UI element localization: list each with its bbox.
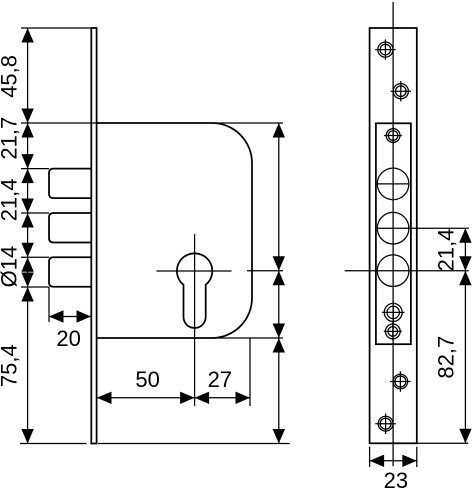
- arrows right view: [459, 228, 471, 243]
- screw hole 4: [382, 301, 405, 324]
- svg-text:45,8: 45,8: [0, 55, 21, 98]
- svg-text:23: 23: [384, 468, 408, 488]
- faceplate side view: [91, 28, 96, 444]
- euro cylinder keyhole: [177, 253, 212, 328]
- bolt hole B: [377, 212, 469, 244]
- svg-text:Ø14: Ø14: [0, 246, 21, 288]
- dimension 23 extension lines: [369, 447, 371, 467]
- extension y=443.5 right part: [98, 443, 290, 445]
- svg-text:75,4: 75,4: [0, 344, 21, 387]
- extension y=443.3: [417, 442, 469, 444]
- right chain of side view: vertical line x=278.8: [278, 123, 280, 444]
- screw hole 3: [384, 127, 402, 145]
- extension line y=213: [21, 212, 49, 214]
- front plate: [370, 28, 417, 443]
- screw hole 2: [391, 81, 411, 101]
- deadbolt 2: [49, 213, 91, 243]
- extension line y=168.6: [21, 168, 49, 170]
- screw hole 5: [384, 322, 402, 340]
- svg-text:21,4: 21,4: [0, 178, 21, 221]
- extension line y=443.5 left: [20, 443, 87, 445]
- front plate vertical centerline: [392, 2, 394, 466]
- screw hole 7: [375, 413, 396, 434]
- extension y=270.7: [247, 270, 283, 272]
- dimension 50/27 line: [97, 397, 250, 399]
- extension y=123 to right: [212, 122, 283, 124]
- svg-text:50: 50: [135, 367, 159, 392]
- svg-text:21,7: 21,7: [0, 117, 21, 160]
- extension y=338: [212, 337, 283, 339]
- screw hole 6: [390, 371, 411, 392]
- extension line y=257.3: [21, 256, 49, 258]
- lock case body: [97, 123, 252, 338]
- bolt hole C: [377, 255, 409, 287]
- svg-text:20: 20: [56, 326, 80, 351]
- deadbolt 1: [49, 169, 91, 199]
- extension line y=287: [21, 286, 49, 288]
- bolt hole A: [377, 168, 409, 200]
- svg-text:21,4: 21,4: [434, 229, 459, 272]
- svg-text:27: 27: [208, 367, 232, 392]
- arrows right chain: [273, 123, 285, 138]
- dimension chain left: vertical line: [27, 28, 29, 444]
- cylinder vertical centerline: [194, 234, 196, 406]
- arrows left chain: [21, 28, 33, 43]
- extension line x=250: [249, 338, 251, 406]
- lock case window: [376, 123, 411, 344]
- extension line y=28: [21, 27, 94, 29]
- screw hole 1: [375, 39, 395, 59]
- horizontal centerline y=270.7: [345, 270, 469, 272]
- dimension 23 line: [370, 460, 417, 462]
- cylinder horizontal centerline: [157, 270, 232, 272]
- deadbolt 3: [49, 257, 91, 287]
- svg-text:82,7: 82,7: [434, 336, 459, 379]
- dimension 20: extension line x=49: [48, 287, 50, 322]
- dimension 20 line: [49, 316, 91, 318]
- extension line y=123: [21, 122, 97, 124]
- dimension 21,4 / 82,7 vertical line: [464, 228, 466, 443]
